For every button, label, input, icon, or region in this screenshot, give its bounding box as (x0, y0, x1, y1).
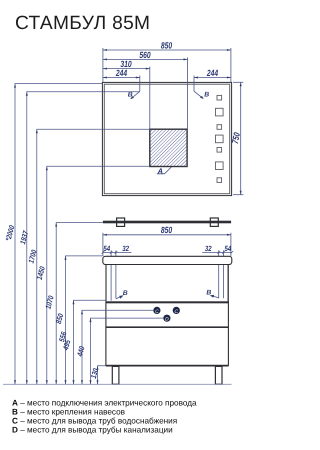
dim 130 line (98, 366, 106, 385)
mirror mount B right marker (194, 91, 209, 99)
dim 1070 line (56, 223, 103, 385)
svg-text:130: 130 (89, 367, 100, 380)
mirror mount B left marker (128, 91, 140, 99)
cabinet B left marker (116, 290, 128, 299)
marker circle C1 (153, 307, 160, 314)
dim 556 line (74, 300, 106, 384)
rail bracket left (117, 218, 125, 226)
svg-text:560: 560 (139, 50, 150, 60)
svg-text:С: С (155, 309, 159, 315)
svg-text:В: В (206, 290, 211, 297)
dim arrows top (103, 49, 231, 79)
svg-text:440: 440 (75, 345, 87, 358)
left ruler labels (4, 224, 101, 380)
dim 850 line (66, 256, 103, 384)
cabinet dim 54/32 left (103, 250, 132, 300)
cabinet dim 32/54 right (202, 250, 231, 298)
svg-text:32: 32 (122, 244, 129, 253)
svg-text:А: А (157, 167, 163, 176)
mirror frame inner (104, 84, 229, 194)
top dim 310 (103, 67, 150, 130)
left ruler arrows (14, 84, 99, 385)
svg-text:В: В (204, 92, 209, 99)
leg right (215, 366, 222, 384)
cabinet bottom edge (106, 365, 228, 367)
dim 1937 line (27, 92, 140, 385)
svg-text:1070: 1070 (43, 294, 55, 310)
svg-text:А – место подключения электрич: А – место подключения электрического про… (12, 399, 197, 408)
svg-text:В: В (128, 92, 133, 99)
dim 1700 line (37, 129, 150, 384)
marker circle D (163, 315, 170, 322)
svg-text:С: С (175, 309, 179, 315)
top dim 850 (103, 48, 231, 82)
svg-text:1937: 1937 (18, 229, 30, 245)
svg-text:С – место для вывода труб водо: С – место для вывода труб водоснабжения (12, 417, 177, 426)
hatched square A (electrical outlet) (150, 129, 187, 166)
cabinet B right marker (206, 290, 218, 298)
mirror decor squares column (216, 95, 224, 182)
cabinet body outline (106, 303, 228, 366)
top dim 244 right (194, 76, 231, 92)
cabinet body top edge (106, 301, 229, 303)
svg-text:54: 54 (103, 244, 110, 253)
svg-text:В – место крепления навесов: В – место крепления навесов (12, 408, 125, 417)
svg-text:54: 54 (225, 244, 232, 253)
left ruler dims (15, 84, 163, 385)
cabinet dim 850 (103, 233, 231, 256)
svg-text:850: 850 (161, 41, 172, 51)
svg-text:850: 850 (54, 312, 65, 325)
ground line (3, 383, 232, 385)
top dim 244 left (103, 76, 140, 92)
dim *2000 line (15, 84, 103, 385)
right dim 750 (233, 82, 243, 194)
svg-text:750: 750 (230, 132, 242, 145)
rail bracket right (210, 218, 218, 226)
dim ticks 54/32 (102, 251, 233, 254)
svg-text:850: 850 (161, 225, 172, 235)
dim 440 line (91, 318, 164, 384)
wall rail (103, 221, 231, 224)
svg-text:В: В (123, 290, 128, 297)
dim 495 line (82, 310, 153, 384)
top dim 560 (103, 57, 188, 129)
svg-text:32: 32 (205, 244, 212, 253)
label A leader (157, 167, 172, 174)
svg-text:244: 244 (206, 68, 218, 78)
legend (12, 399, 197, 435)
countertop (103, 256, 232, 264)
svg-text:D: D (165, 317, 169, 323)
drawer divider (106, 326, 228, 328)
svg-text:D – место для вывода трубы кан: D – место для вывода трубы канализации (12, 426, 173, 435)
leg left (112, 366, 119, 384)
mirror frame outer (102, 82, 231, 195)
cabinet upper side left (105, 264, 107, 302)
svg-text:495: 495 (61, 338, 73, 351)
cabinet upper side right (227, 264, 229, 302)
marker circle C2 (173, 307, 180, 314)
svg-text:СТАМБУЛ 85М: СТАМБУЛ 85М (15, 13, 150, 34)
svg-text:244: 244 (115, 68, 127, 78)
dim 1450 line (47, 166, 150, 384)
